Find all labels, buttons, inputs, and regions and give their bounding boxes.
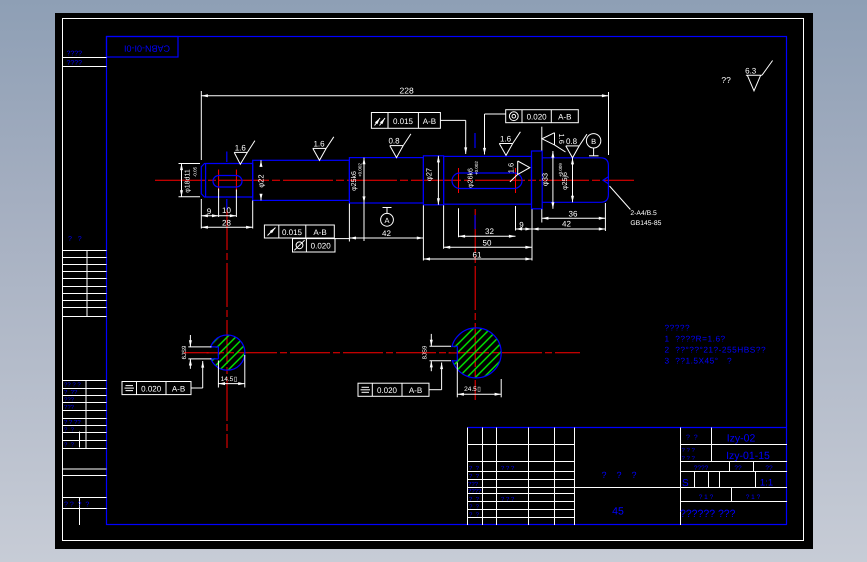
center hole mark at right end: [603, 177, 608, 184]
right fcf leader: [429, 363, 442, 390]
title block vertical rules: [483, 428, 712, 526]
svg-text:0.8: 0.8: [388, 137, 400, 146]
svg-text:42: 42: [382, 229, 391, 238]
svg-text:φ33: φ33: [541, 173, 550, 186]
svg-text:36: 36: [569, 209, 578, 218]
svg-text:9: 9: [207, 207, 212, 216]
svg-text:1:1: 1:1: [760, 478, 773, 489]
left keyway arc center mark 2: [235, 170, 237, 192]
left section depth dim ext lines: [217, 361, 219, 388]
svg-text:0.8: 0.8: [566, 137, 578, 146]
svg-text:A-B: A-B: [172, 384, 185, 393]
svg-text:????: ????: [694, 465, 709, 472]
svg-text:? ? ?: ? ? ?: [682, 447, 696, 454]
svg-text:? ?: ? ?: [469, 511, 480, 518]
phi18 dimension extension ticks: [179, 163, 201, 165]
feature control frame: runout 0.015 A-B (middle): [264, 225, 334, 238]
svg-text:2 ??°??°21?-255HBS??: 2 ??°??°21?-255HBS??: [665, 345, 767, 355]
right keyway arc center mark 1: [458, 168, 460, 193]
svg-text:??: ??: [734, 465, 742, 472]
technical notes: [665, 323, 767, 366]
svg-text:? ? ??: ? ? ??: [64, 419, 81, 426]
right section keyway width dim line: [430, 334, 432, 346]
blue centerline tick below right keyway: [474, 215, 476, 229]
phi25k6 dimension line: [363, 158, 365, 203]
phi27 dimension line: [437, 156, 439, 205]
feature control frame: cylindricity 0.020: [293, 239, 336, 252]
svg-text:3 ??1.5X45° ?: 3 ??1.5X45° ?: [665, 356, 733, 366]
svg-text:????: ????: [67, 60, 83, 67]
right section depth dim: [457, 393, 501, 395]
surface finish 6.3 top right: [746, 61, 773, 91]
dimension 9 (left): [201, 215, 218, 217]
svg-text:0.020: 0.020: [311, 242, 332, 251]
svg-text:? ? ?: ? ? ?: [501, 465, 515, 472]
svg-text:? ? ?: ? ? ?: [601, 470, 636, 480]
datum B symbol: [586, 134, 600, 156]
top-left part number box: [107, 37, 179, 58]
svg-text:? 1 ?: ? 1 ?: [746, 494, 761, 501]
blue centerline tick above left keyway: [226, 152, 228, 163]
svg-text:228: 228: [400, 86, 414, 96]
svg-text:+0.002: +0.002: [358, 163, 363, 177]
svg-text:?????: ?????: [665, 323, 691, 333]
svg-text:? ?: ? ?: [68, 236, 82, 243]
svg-text:? ?: ? ?: [469, 473, 480, 480]
svg-text:45: 45: [612, 506, 624, 518]
left section keyway width ext lines: [188, 346, 211, 348]
left column top rule 2: [63, 66, 107, 68]
fcf connector to extension line: [334, 238, 350, 240]
svg-text:? ?: ? ?: [469, 465, 480, 472]
svg-text:10: 10: [222, 206, 231, 215]
svg-text:1.6: 1.6: [500, 135, 512, 144]
svg-text:? ?: ? ?: [64, 442, 75, 449]
svg-text:A-B: A-B: [423, 117, 436, 126]
svg-text:CABN-0I-0I: CABN-0I-0I: [124, 43, 170, 53]
right cross-section circle with hatch: [451, 328, 501, 378]
dim 42 left extension: [348, 204, 350, 242]
svg-text:Izy-01-15: Izy-01-15: [726, 450, 770, 462]
surface finish 1.6 over phi26k6: [499, 132, 520, 156]
svg-text:1.6: 1.6: [507, 163, 516, 173]
surface finish 0.8 over phi25k6: [390, 134, 411, 158]
svg-text:2-A4/B.5: 2-A4/B.5: [630, 210, 657, 217]
dim 9/10 extension mid: [218, 189, 220, 218]
svg-text:? ?: ? ?: [686, 435, 698, 442]
right section keyway cutout: [450, 347, 457, 360]
title block left small texts: [468, 465, 515, 519]
svg-text:0.020: 0.020: [141, 384, 162, 393]
svg-text:14.5 ▯: 14.5 ▯: [221, 376, 238, 383]
left keyway slot: [213, 176, 242, 188]
dim 9 extension (shares 228 ext): [200, 199, 202, 229]
svg-text:0.020: 0.020: [377, 386, 398, 395]
svg-text:? ??: ? ??: [64, 389, 78, 396]
cross-sections horizontal centerline: [184, 352, 580, 354]
svg-text:A-B: A-B: [313, 228, 326, 237]
blue centerline tick below left keyway: [226, 199, 228, 210]
phi33 dimension line: [552, 151, 554, 209]
dimension 50: [444, 246, 532, 248]
title block outline top (blue): [468, 427, 788, 429]
title block left edge: [467, 428, 469, 526]
shaft section phi22: [253, 160, 350, 200]
shaft section phi27: [423, 156, 443, 205]
svg-text:0.015: 0.015: [393, 117, 414, 126]
svg-text:28: 28: [222, 218, 231, 227]
right keyway slot: [452, 173, 522, 189]
svg-text:50: 50: [483, 239, 492, 248]
right section symmetry fcf: [358, 383, 429, 396]
right section depth dim ext lines: [456, 363, 458, 398]
left cross-section circle with hatch: [210, 335, 245, 370]
svg-text:? ?: ? ?: [64, 427, 75, 434]
dim 228 extension line right: [608, 92, 610, 155]
right keyway arc center mark 2: [515, 168, 517, 193]
phi22 dimension line (broken for text): [260, 160, 262, 165]
svg-text:??: ??: [765, 465, 773, 472]
svg-text:B: B: [591, 137, 596, 146]
svg-text:+0.009: +0.009: [558, 163, 563, 177]
left keyway section centerline (vertical red): [226, 206, 228, 448]
dimension 9 (right): [516, 228, 533, 230]
dimension 228: [201, 95, 608, 97]
leader from top fcf: [440, 120, 465, 154]
svg-text:61: 61: [473, 251, 482, 260]
dim 42/61 extension at phi27: [422, 205, 424, 260]
svg-text:? ? ?: ? ? ?: [501, 496, 515, 503]
right section keyway width ext lines: [430, 345, 452, 347]
right section keyway outline: [452, 346, 458, 361]
title block right small cell rules: [695, 462, 756, 502]
svg-text:? ? ?: ? ? ?: [682, 455, 696, 462]
feature control frame: total runout 0.015 A-B (top): [371, 113, 440, 129]
dimension 42 (left, under phi25k6): [349, 237, 423, 239]
left column bottom rules: [63, 432, 107, 526]
dimension 42 (right): [532, 228, 605, 230]
svg-text:A-B: A-B: [558, 113, 571, 122]
dim 228 extension line left: [200, 91, 202, 160]
svg-text:6JS9: 6JS9: [181, 345, 188, 359]
dimension 32: [459, 235, 516, 237]
svg-text:φ22: φ22: [257, 174, 266, 187]
svg-text:A: A: [384, 216, 389, 225]
left column top rule 1: [63, 57, 107, 59]
svg-text:-0.05: -0.05: [193, 166, 198, 177]
left section keyway outline: [211, 347, 219, 359]
dim 50 left extension: [443, 205, 445, 249]
svg-text:1.6: 1.6: [235, 144, 247, 153]
shaft section phi26k6 (keyway section): [444, 156, 532, 204]
left fcf leader: [191, 361, 203, 388]
shaft section phi18: [201, 164, 252, 198]
svg-text:? ?: ? ?: [469, 496, 480, 503]
left section depth dim: [218, 383, 244, 385]
svg-text:???: ???: [468, 481, 479, 488]
svg-text:φ27: φ27: [425, 168, 434, 181]
svg-text:??: ??: [721, 75, 731, 85]
svg-text:0.020: 0.020: [527, 113, 548, 122]
datum A symbol: [381, 208, 394, 227]
blue centerline tick above right keyway: [474, 133, 476, 148]
dimension 36: [542, 217, 606, 219]
surface finish 1.6 over phi18: [234, 141, 255, 165]
svg-text:φ18d11: φ18d11: [184, 169, 192, 193]
left column mid table rules: [63, 250, 107, 317]
dim ext at phi33 right face (up to finish symbol and down): [541, 127, 543, 151]
title block horizontal rules: [468, 445, 788, 518]
surface finish 1.6 over phi22: [313, 137, 334, 161]
svg-text:32: 32: [485, 227, 494, 236]
dim 28 extension right: [252, 201, 254, 229]
main horizontal centerline: [155, 179, 634, 181]
svg-text:? ?: ? ?: [469, 504, 480, 511]
dimension 61: [423, 258, 532, 260]
inner white border frame: [63, 19, 804, 541]
svg-text:? ? ? ?: ? ? ? ?: [64, 502, 89, 509]
svg-text:GB145-85: GB145-85: [630, 220, 661, 227]
leader from concentricity fcf: [485, 114, 506, 155]
left column lower table rules: [63, 381, 107, 449]
blue drawing frame: [107, 37, 787, 525]
svg-text:???: ???: [64, 397, 75, 404]
svg-text:9: 9: [519, 221, 524, 230]
svg-text:1.6: 1.6: [557, 133, 566, 143]
phi25j6 dimension line: [572, 158, 574, 203]
shaft section phi25k6: [349, 158, 423, 203]
svg-text:8JS9: 8JS9: [422, 345, 429, 359]
dimension 28: [201, 226, 252, 228]
left keyway arc center mark 1: [218, 170, 220, 192]
svg-text:S: S: [682, 478, 689, 489]
svg-text:???: ???: [64, 404, 75, 411]
dim ext at phi33 left face: [531, 209, 533, 260]
surface finish 1.6 rotated (keyway flank): [510, 161, 530, 182]
svg-text:1 ????R=1.6?: 1 ????R=1.6?: [665, 334, 726, 344]
svg-text:+0.002: +0.002: [474, 161, 479, 175]
phi18 chamfer line: [205, 164, 207, 198]
left section symmetry fcf: [122, 382, 191, 395]
left column lower table labels: [64, 382, 81, 449]
dim 32/9 extension: [515, 206, 517, 231]
shaft section phi25j6 (right end): [542, 158, 608, 203]
svg-text:A-B: A-B: [409, 386, 422, 395]
svg-text:Izy-02: Izy-02: [727, 433, 756, 445]
svg-text:????: ????: [67, 51, 83, 58]
svg-text:6.3: 6.3: [745, 66, 757, 75]
left section keyway width dim line: [189, 335, 191, 347]
shaft section phi33 collar: [532, 151, 543, 209]
dim ext near right end: [604, 203, 606, 231]
svg-text:24.5 ▯: 24.5 ▯: [464, 386, 481, 393]
surface finish 0.8 over phi25j6: [566, 134, 587, 158]
right keyway section centerline (vertical red): [474, 209, 476, 400]
svg-text:? 1 ?: ? 1 ?: [699, 494, 714, 501]
svg-text:42: 42: [562, 220, 571, 229]
surface finish 1.6 rotated (phi33 shoulder face): [542, 133, 566, 152]
feature control frame: concentricity 0.020 A-B: [506, 110, 579, 123]
svg-text:0.015: 0.015: [282, 228, 303, 237]
phi18 dimension line: [181, 164, 183, 197]
svg-text:?? ? ?: ?? ? ?: [64, 382, 81, 389]
svg-text:????: ????: [468, 488, 482, 495]
svg-text:?????? ???: ?????? ???: [680, 508, 736, 520]
dim 32 left extension: [458, 208, 460, 237]
center hole callout leader: [610, 186, 631, 210]
svg-text:1.6: 1.6: [313, 139, 325, 148]
left section keyway cutout: [209, 348, 218, 358]
dimension 10: [219, 215, 237, 217]
